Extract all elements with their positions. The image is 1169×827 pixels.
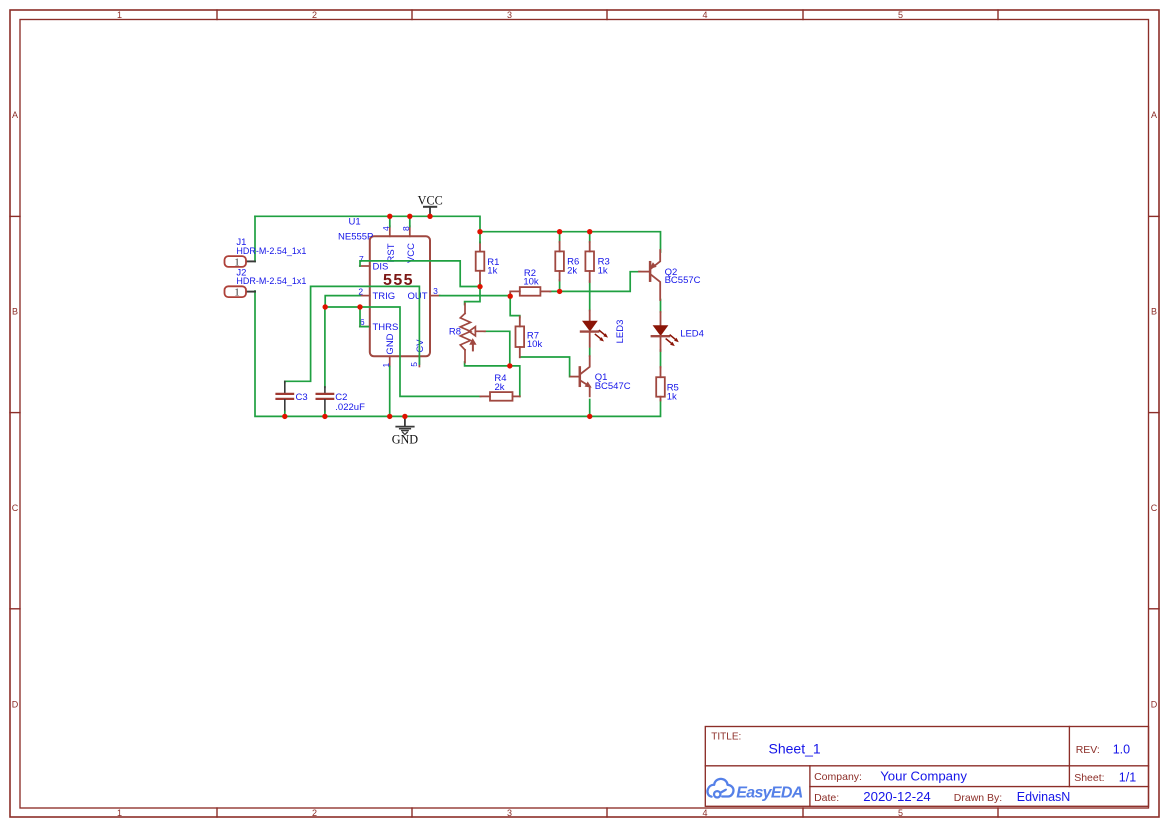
svg-text:BC557C: BC557C [665, 275, 701, 286]
wire R3 to LED3 [589, 281, 591, 311]
transistor Q2 BC557C [639, 250, 660, 300]
svg-text:3: 3 [507, 808, 512, 818]
svg-text:10k: 10k [527, 339, 543, 350]
svg-text:RST: RST [386, 243, 397, 262]
svg-text:CV: CV [415, 339, 426, 353]
svg-text:GND: GND [385, 333, 396, 354]
junction R8 bottom / wiper [507, 363, 512, 368]
wire GND pin1 to rail [389, 367, 391, 417]
svg-text:D: D [1151, 700, 1158, 710]
ground GND symbol [392, 416, 419, 446]
pin 8 VCC [409, 226, 411, 236]
wire VCC top rail [255, 216, 480, 231]
svg-text:1: 1 [117, 808, 122, 818]
frame column ticks bottom [217, 808, 998, 817]
frame column labels bottom [117, 808, 903, 818]
svg-text:Date:: Date: [814, 792, 839, 804]
svg-text:5: 5 [898, 808, 903, 818]
resistor R5 [656, 367, 665, 401]
wire R6 top [559, 232, 561, 243]
junction pin8/rail [407, 214, 412, 219]
svg-text:A: A [12, 110, 18, 120]
junction GND symbol / ground rail [402, 414, 407, 419]
pin 4 RST [389, 226, 391, 236]
resistor R3 [585, 242, 594, 282]
frame row ticks right [1149, 216, 1159, 608]
resistor R1 [476, 242, 485, 284]
resistor R4 [480, 392, 519, 401]
junction dots [282, 214, 592, 419]
svg-text:5: 5 [409, 362, 419, 367]
svg-text:4: 4 [702, 808, 707, 818]
svg-text:C: C [12, 503, 19, 513]
svg-text:Drawn By:: Drawn By: [954, 792, 1002, 804]
wire LED3 to Q1 collector [589, 348, 591, 356]
junction R6 top [557, 229, 562, 234]
wire R7 bottom to Q1 base [520, 357, 571, 377]
svg-text:REV:: REV: [1076, 744, 1100, 756]
frame row labels left [12, 110, 19, 710]
svg-text:5: 5 [898, 10, 903, 20]
wire R8 bottom to R4 right [465, 362, 520, 396]
junction R1 bottom / DIS [477, 284, 482, 289]
svg-text:3: 3 [433, 286, 438, 296]
LED LED4 [652, 312, 679, 351]
svg-text:EasyEDA: EasyEDA [736, 784, 802, 801]
svg-text:U1: U1 [349, 216, 361, 227]
junction Q1 emitter / ground rail [587, 414, 592, 419]
svg-text:D: D [12, 700, 19, 710]
svg-text:DIS: DIS [373, 261, 389, 272]
svg-text:1: 1 [117, 10, 122, 20]
pin 2 TRIG [360, 295, 370, 297]
junction OUT / R2 [508, 294, 513, 299]
resistor R2 [510, 287, 550, 296]
svg-text:NE555P: NE555P [338, 232, 373, 243]
wire DIS node to R8 [465, 287, 480, 305]
wire Q1 emitter to ground rail [589, 400, 591, 417]
svg-text:GND: GND [392, 433, 419, 447]
potentiometer R8 [460, 304, 485, 363]
svg-text:EdvinasN: EdvinasN [1017, 790, 1071, 804]
svg-text:1k: 1k [667, 391, 677, 402]
svg-text:2: 2 [312, 808, 317, 818]
resistor R6 [555, 242, 564, 281]
pin 5 CV [418, 356, 420, 366]
svg-text:LED3: LED3 [615, 320, 626, 344]
svg-text:2: 2 [312, 10, 317, 20]
wire TRIG net [325, 296, 360, 307]
svg-text:2k: 2k [567, 265, 577, 276]
wire R6 bottom [559, 280, 561, 291]
wire left rail to J1 [254, 216, 256, 261]
svg-text:10k: 10k [523, 277, 539, 288]
wire CV to C3 [285, 286, 420, 382]
svg-text:C2: C2 [335, 392, 347, 403]
LED LED3 [581, 311, 608, 347]
power VCC symbol [418, 193, 443, 216]
svg-text:1k: 1k [487, 266, 497, 277]
svg-text:LED4: LED4 [680, 329, 704, 340]
frame row labels right [1151, 110, 1158, 710]
EasyEDA logo cloud [707, 779, 733, 798]
wire R1 bottom [479, 284, 481, 287]
svg-text:HDR-M-2.54_1x1: HDR-M-2.54_1x1 [236, 246, 306, 256]
frame column labels top [117, 10, 903, 20]
pin 3 OUT [430, 295, 440, 297]
transistor Q1 BC547C [570, 356, 590, 396]
wire R3 top [589, 232, 591, 243]
svg-text:2020-12-24: 2020-12-24 [863, 789, 930, 804]
connector J2 [225, 286, 256, 298]
junction R2 right / R6 [557, 289, 562, 294]
wire pin8 to rail [409, 216, 411, 226]
svg-text:TITLE:: TITLE: [711, 732, 741, 743]
frame column ticks top [217, 10, 998, 20]
connector J1 [225, 256, 256, 268]
wire node to C2 [324, 307, 326, 387]
capacitor C2 [317, 387, 334, 417]
junction R1 top [477, 229, 482, 234]
wire THRS branch [360, 307, 368, 327]
svg-text:THRS: THRS [373, 322, 399, 333]
wire R2 right to Q2 base [550, 272, 641, 292]
wire J2 to ground rail and bottom rail [255, 291, 661, 416]
pin 7 DIS [360, 265, 370, 267]
svg-text:Company:: Company: [814, 771, 862, 783]
junction VCC/rail [427, 214, 432, 219]
resistor R7 [516, 317, 525, 358]
junction TRIG / C2 [323, 304, 328, 309]
svg-text:1: 1 [234, 287, 240, 299]
svg-text:Your Company: Your Company [880, 769, 967, 784]
wire LED4 to R5 [660, 350, 662, 368]
svg-text:1/1: 1/1 [1119, 770, 1136, 784]
junction C3 / ground rail [282, 414, 287, 419]
svg-text:TRIG: TRIG [373, 291, 396, 302]
svg-text:VCC: VCC [406, 243, 417, 263]
title block outline [705, 727, 1148, 807]
svg-text:3: 3 [507, 10, 512, 20]
junction C2 / ground rail [322, 414, 327, 419]
svg-text:C3: C3 [296, 392, 308, 403]
svg-text:Sheet:: Sheet: [1074, 772, 1104, 784]
svg-text:A: A [1151, 110, 1157, 120]
svg-text:R8: R8 [449, 327, 461, 338]
op-amp U1 555 chip body [370, 236, 430, 356]
junction R3 top [587, 229, 592, 234]
wire pin4 to rail [389, 216, 391, 226]
wire VCC second rail [480, 232, 661, 252]
wire OUT net [440, 295, 511, 297]
wire OUT node down to R7 [510, 296, 520, 317]
svg-text:4: 4 [702, 10, 707, 20]
wire DIS net [360, 261, 479, 287]
svg-text:B: B [12, 307, 18, 317]
svg-text:VCC: VCC [418, 193, 443, 207]
svg-text:C: C [1151, 503, 1158, 513]
svg-text:.022uF: .022uF [335, 402, 365, 413]
svg-text:BC547C: BC547C [595, 381, 631, 392]
wire TRIG/THRS bus to R4 [325, 307, 480, 396]
capacitor C3 [277, 382, 294, 417]
junction pin4/rail [387, 214, 392, 219]
svg-text:1.0: 1.0 [1113, 742, 1130, 756]
wire R1 top [479, 232, 481, 243]
frame row ticks left [10, 216, 20, 608]
svg-text:2k: 2k [494, 382, 504, 393]
svg-text:B: B [1151, 307, 1157, 317]
pin 1 GND [389, 356, 391, 366]
junction THRS branch [357, 304, 362, 309]
wire Q2 collector to LED4 [660, 300, 662, 313]
svg-text:HDR-M-2.54_1x1: HDR-M-2.54_1x1 [236, 276, 306, 286]
pin 6 THRS [360, 326, 370, 328]
svg-text:Sheet_1: Sheet_1 [769, 740, 821, 756]
junction pin1 / ground rail [387, 414, 392, 419]
wire R8 wiper [484, 331, 509, 364]
svg-text:OUT: OUT [407, 291, 427, 302]
svg-text:1k: 1k [598, 265, 608, 276]
